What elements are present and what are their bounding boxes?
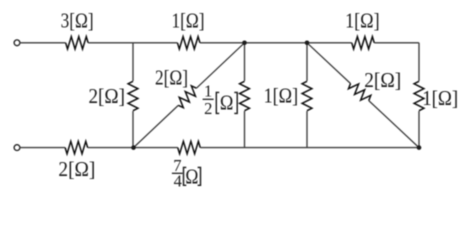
resistor 2ohm diagonal right [348,84,370,101]
resistor 7/4ohm bottom [178,141,201,153]
svg-text:Ω: Ω [220,91,234,115]
wire bottom rail [20,147,419,149]
resistor 1ohm top-right [352,37,375,49]
resistor 1ohm right edge [414,81,424,110]
wire diagonal right [307,43,419,148]
terminal bottom-left [14,145,20,151]
svg-text:1[Ω]: 1[Ω] [264,84,299,108]
svg-text:3[Ω]: 3[Ω] [61,8,94,32]
resistor 2ohm vertical branch A [128,81,138,110]
resistor 1/2ohm vertical branch B [240,81,250,110]
svg-text:Ω: Ω [185,164,198,188]
wire top rail [20,42,419,44]
wire vertical branch C [306,43,308,148]
svg-text:2[Ω]: 2[Ω] [155,66,188,90]
svg-text:1[Ω]: 1[Ω] [172,8,205,32]
label 7/4 ohm fraction [172,156,201,191]
svg-text:2: 2 [204,99,212,118]
svg-text:1[Ω]: 1[Ω] [422,86,458,110]
terminal top-left [14,40,20,46]
svg-text:2[Ω]: 2[Ω] [58,157,95,181]
resistor 2ohm bottom-left [65,141,88,153]
resistor 3ohm top-left [66,37,89,49]
label 1/2 ohm fraction [203,81,238,118]
resistor 1ohm vertical branch C [302,81,312,110]
resistor 1ohm top-middle [177,37,200,49]
node top B junction dot [242,41,247,46]
svg-text:1[Ω]: 1[Ω] [345,9,380,33]
node bottom right junction dot [417,145,422,150]
svg-text:2[Ω]: 2[Ω] [364,68,401,92]
resistor 2ohm diagonal left [178,86,196,108]
svg-text:1: 1 [204,81,212,100]
wire vertical branch A [132,43,134,148]
node bottom E junction dot [131,145,136,150]
node top C junction dot [305,41,310,46]
wire vertical branch right edge [418,43,420,148]
svg-text:4: 4 [174,171,182,190]
svg-text:2[Ω]: 2[Ω] [89,84,126,108]
wire diagonal left [134,43,245,148]
wire vertical branch B [244,43,246,148]
